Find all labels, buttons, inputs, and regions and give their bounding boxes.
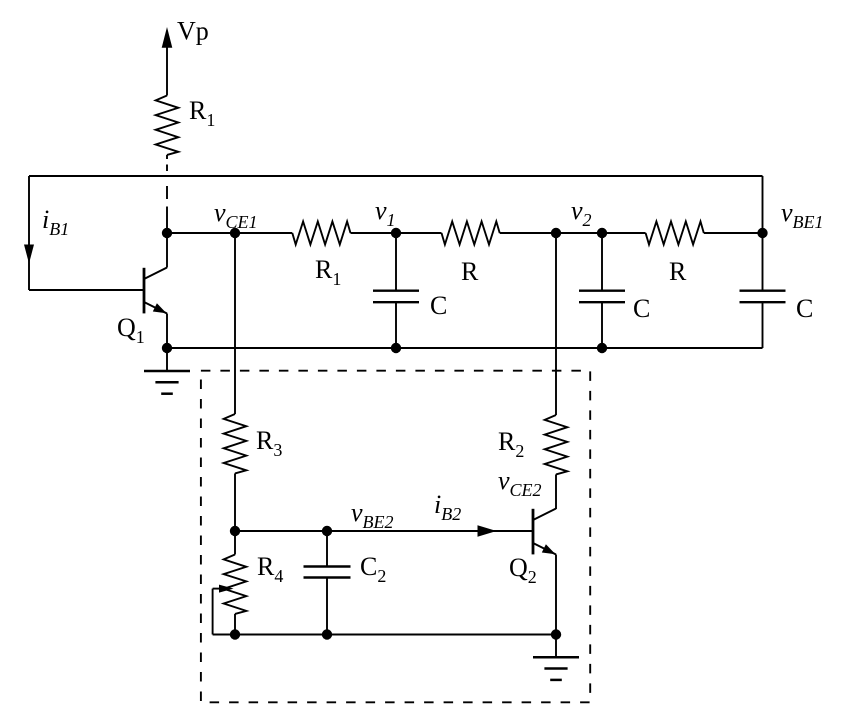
node R2 tap junction <box>551 228 561 238</box>
resistor R1 (top, vertical) <box>156 96 179 155</box>
wire base Q1 <box>29 289 144 291</box>
ground (Q1 emitter) <box>144 370 190 373</box>
wire R2 to Q2 collector <box>555 474 557 509</box>
resistor R4 (rheostat) <box>234 531 236 555</box>
current arrow iB1 <box>24 245 34 264</box>
wire emitter to ground <box>555 635 557 658</box>
bottom wire of subcircuit <box>213 634 556 636</box>
capacitor C2 <box>326 531 328 567</box>
bottom ground bus wire <box>167 347 763 349</box>
node Q1 emitter <box>162 343 172 353</box>
R4 wiper arrow <box>212 589 214 635</box>
wire R to v2 <box>500 232 646 234</box>
node Q2 emitter <box>551 629 561 639</box>
current arrow iB2 <box>478 525 497 537</box>
svg-text:R: R <box>461 257 479 286</box>
svg-text:R: R <box>669 257 687 286</box>
wire Q2 emitter down <box>555 555 557 635</box>
svg-text:C: C <box>633 294 650 323</box>
wire left drop (base feedback) <box>28 176 30 290</box>
node R4 bottom <box>230 629 240 639</box>
resistor R3 <box>224 414 247 473</box>
capacitor C at v1 <box>395 233 397 291</box>
resistor R1 (horizontal) <box>292 222 350 245</box>
ground (Q2 emitter) <box>533 656 579 659</box>
node R3/R4 junction <box>230 526 240 536</box>
wire Q1 collector <box>166 233 168 268</box>
dashed subcircuit box <box>201 371 590 703</box>
node v2 <box>597 228 607 238</box>
svg-text:C: C <box>796 294 813 323</box>
svg-text:Vp: Vp <box>177 17 209 46</box>
node vBE1 <box>757 228 767 238</box>
node v1 <box>391 228 401 238</box>
wire R1h to v1 <box>351 232 442 234</box>
transistor Q2 <box>532 509 535 555</box>
node C1 bottom <box>391 343 401 353</box>
node vCE1 junction <box>230 228 240 238</box>
capacitor C at v2 <box>601 233 603 291</box>
resistor R2 <box>545 415 568 474</box>
node Q1 collector <box>162 228 172 238</box>
wire vCE1 node down to R3 <box>234 233 236 414</box>
top feedback bus wire <box>29 175 763 177</box>
resistor R (middle) <box>442 222 500 245</box>
wire R3 to vBE2 node <box>234 473 236 531</box>
resistor R (right) <box>646 222 704 245</box>
wire emitter to ground <box>166 348 168 371</box>
wire R to vBE1 <box>704 232 763 234</box>
node C2 bottom <box>597 343 607 353</box>
wire vCE1 segment <box>167 232 292 234</box>
svg-text:C: C <box>430 291 447 320</box>
node C2 top <box>322 526 332 536</box>
wire R2 tap down to R2 <box>555 233 557 415</box>
wire right drop to vBE1 <box>762 176 764 233</box>
wire vBE2 to Q2 base <box>235 530 533 532</box>
capacitor C at vBE1 <box>762 233 764 291</box>
power rail Vp arrow <box>162 27 173 48</box>
transistor Q1 <box>143 268 146 314</box>
wire R1 bottom to collector node (partially dashed) <box>166 155 168 159</box>
wire Q1 emitter <box>166 314 168 349</box>
node C2 bottom <box>322 629 332 639</box>
